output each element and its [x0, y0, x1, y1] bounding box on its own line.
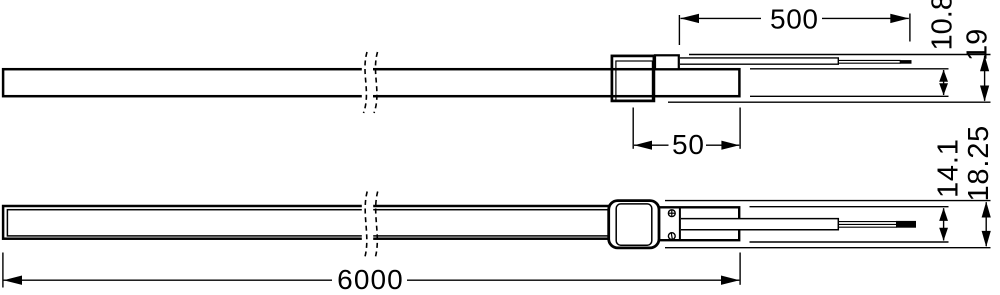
dim 50: right extension line	[739, 108, 741, 149]
bottom view: wire with centre line	[838, 222, 896, 228]
dim 50: left extension line	[632, 108, 634, 149]
dim 500: left extension line	[678, 15, 680, 45]
dim 6000: right extension line	[739, 253, 741, 285]
dim 18.25: top extension line	[665, 200, 991, 202]
dim 50: label	[672, 129, 705, 160]
dim 6000: label	[337, 264, 404, 295]
bottom view: cable jacket	[681, 219, 838, 230]
dim 14.1: dimension line with arrows	[939, 208, 948, 241]
dim 19: label	[962, 29, 994, 61]
dim 500: label	[770, 3, 819, 34]
dim 19: bottom extension line	[668, 101, 991, 103]
top view: wire (side)	[838, 60, 900, 63]
bottom view: wire tip	[896, 221, 916, 228]
bottom view: main profile bar inner lines	[7, 210, 611, 236]
bottom view: break gap	[362, 203, 373, 243]
bottom view: plate divider	[679, 207, 681, 241]
top view: connector inner seam	[616, 61, 653, 100]
bottom view: mounting plate	[658, 207, 739, 240]
bottom view: break curve left	[364, 192, 367, 260]
top view: screw tab (step)	[655, 55, 679, 69]
bottom view: connector (rounded) outer	[609, 201, 659, 248]
dim 50: dimension line	[634, 141, 739, 150]
dim 14.1: label	[933, 138, 965, 198]
bottom view: connector inner outline	[616, 204, 652, 245]
bottom view: screw top	[668, 210, 675, 217]
bottom view: main profile bar outer	[3, 206, 612, 239]
svg-text:19: 19	[962, 29, 994, 61]
dim 10.8: bottom extension line	[750, 95, 949, 97]
svg-text:18.25: 18.25	[963, 125, 995, 202]
top view: break gap	[362, 66, 373, 99]
top view: break curve right	[374, 52, 378, 113]
svg-text:50: 50	[672, 129, 705, 160]
svg-text:14.1: 14.1	[933, 138, 965, 198]
dim 10.8: label	[927, 0, 959, 51]
dim 14.1: bottom extension line	[750, 241, 949, 243]
dim 18.25: dimension line with arrows	[982, 202, 991, 247]
dim 19: top extension line	[689, 54, 991, 56]
dim 10.8: dimension line with arrows	[939, 70, 948, 96]
dim 6000: left extension line	[2, 253, 4, 288]
dim 500: right extension line	[909, 14, 911, 42]
svg-text:500: 500	[770, 3, 819, 34]
svg-text:6000: 6000	[337, 264, 404, 295]
dim 18.25: bottom extension line	[665, 247, 991, 249]
dim 6000: dimension line	[4, 276, 740, 285]
top view: connector box	[612, 56, 654, 101]
top view: break curve left	[364, 52, 368, 113]
top view: cable jacket (side)	[680, 58, 838, 64]
dim 19: dimension line with arrows	[980, 55, 989, 101]
top view: wire tip (side)	[900, 60, 912, 64]
dim 14.1: top extension line	[750, 206, 949, 208]
svg-text:10.8: 10.8	[927, 0, 959, 51]
dim 18.25: label	[963, 125, 995, 202]
top view: main profile bar and end plate outline	[3, 69, 739, 96]
dim 500: dimension line	[680, 14, 909, 23]
dim 10.8: top extension line	[750, 68, 949, 70]
bottom view: break curve right	[375, 192, 378, 260]
bottom view: screw bottom	[668, 233, 675, 240]
